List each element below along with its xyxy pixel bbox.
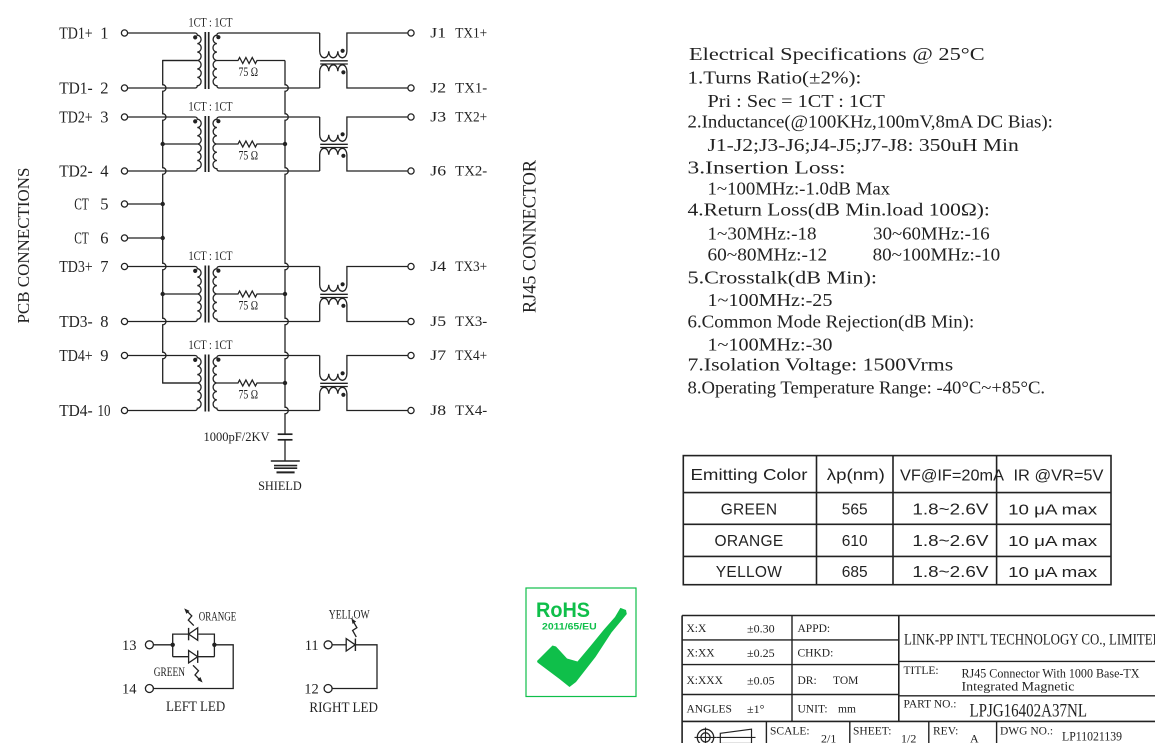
terminal J5 xyxy=(408,318,414,324)
svg-text:5.Crosstalk(dB Min):: 5.Crosstalk(dB Min): xyxy=(688,267,878,288)
wire LED pair to pin 14 xyxy=(153,645,233,689)
transformer T1 secondary winding xyxy=(213,33,320,88)
svg-text:60~80MHz:-12: 60~80MHz:-12 xyxy=(708,245,828,265)
svg-text:J1-J2;J3-J6;J4-J5;J7-J8: 350uH: J1-J2;J3-J6;J4-J5;J7-J8: 350uH Min xyxy=(708,135,1019,155)
svg-text:TX2-: TX2- xyxy=(455,163,487,179)
svg-text:6: 6 xyxy=(100,228,108,247)
svg-text:9: 9 xyxy=(100,346,108,365)
svg-text:6.Common Mode Rejection(dB Min: 6.Common Mode Rejection(dB Min): xyxy=(688,311,975,332)
svg-text:LEFT LED: LEFT LED xyxy=(166,699,225,715)
svg-text:10: 10 xyxy=(98,401,111,420)
junction dot T4 resistor xyxy=(283,381,287,385)
svg-text:4.Return Loss(dB Min.load 100Ω: 4.Return Loss(dB Min.load 100Ω): xyxy=(688,200,990,221)
svg-text:TX3+: TX3+ xyxy=(455,259,487,275)
svg-text:SHIELD: SHIELD xyxy=(258,479,302,493)
LED pair loop wires xyxy=(173,634,215,657)
svg-text:TX4-: TX4- xyxy=(455,403,487,419)
common-mode choke of T2 upper winding xyxy=(320,117,408,141)
terminal J1 xyxy=(408,30,414,36)
title block grid xyxy=(682,615,1155,617)
terminal pin 11 xyxy=(324,641,332,649)
resistor 75ohm of T1 xyxy=(217,58,285,64)
svg-text:TD4+: TD4+ xyxy=(59,346,93,365)
svg-text:TX3-: TX3- xyxy=(455,314,487,330)
common-mode choke of T1 upper winding xyxy=(320,33,408,58)
svg-text:2/1: 2/1 xyxy=(821,732,836,743)
svg-text:TOM: TOM xyxy=(833,675,858,687)
svg-text:LPJG16402A37NL: LPJG16402A37NL xyxy=(970,702,1088,722)
terminal pin 1 (TD1+) xyxy=(121,30,127,36)
transformer T2 primary winding xyxy=(128,117,202,171)
svg-text:RoHS: RoHS xyxy=(536,598,590,622)
common-mode choke of T4 lower winding xyxy=(320,387,408,410)
svg-text:1~30MHz:-18: 1~30MHz:-18 xyxy=(708,224,817,244)
svg-text:Pri : Sec = 1CT : 1CT: Pri : Sec = 1CT : 1CT xyxy=(708,91,885,111)
svg-text:3.Insertion Loss:: 3.Insertion Loss: xyxy=(688,158,846,178)
transformer T3 polarity dots xyxy=(193,269,197,273)
svg-text:X:X: X:X xyxy=(687,623,708,635)
junction dot T2 center tap xyxy=(161,142,165,146)
svg-text:1~100MHz:-25: 1~100MHz:-25 xyxy=(708,290,833,310)
transformer T4 core xyxy=(204,355,206,412)
svg-text:10 μA max: 10 μA max xyxy=(1008,533,1098,550)
svg-text:CT: CT xyxy=(74,194,89,213)
transformer T3 primary center-tap wire xyxy=(163,293,198,295)
svg-text:1/2: 1/2 xyxy=(901,732,916,743)
svg-text:685: 685 xyxy=(842,564,868,581)
wire from pin 6 xyxy=(128,237,163,239)
svg-text:TD3+: TD3+ xyxy=(59,257,93,276)
terminal J3 xyxy=(408,114,414,120)
junction dot CT6 xyxy=(161,236,165,240)
wire capacitor to ground xyxy=(284,440,286,461)
svg-text:TD3-: TD3- xyxy=(59,312,93,331)
terminal pin 13 xyxy=(145,641,153,649)
terminal pin 9 (TD4+) xyxy=(121,352,127,358)
svg-text:TD1-: TD1- xyxy=(59,78,93,97)
transformer T3 secondary winding xyxy=(213,267,320,322)
svg-text:1CT : 1CT: 1CT : 1CT xyxy=(189,338,233,352)
svg-text:1: 1 xyxy=(100,23,108,42)
terminal pin 4 (TD2-) xyxy=(121,168,127,174)
svg-text:X:XX: X:XX xyxy=(687,648,716,660)
terminal pin 12 xyxy=(324,685,332,693)
svg-text:A: A xyxy=(970,732,979,743)
transformer T1 primary center-tap wire xyxy=(163,60,198,62)
transformer T3 core xyxy=(204,266,206,323)
resistor 75ohm of T3 xyxy=(217,291,285,297)
terminal J2 xyxy=(408,85,414,91)
svg-text:1.8~2.6V: 1.8~2.6V xyxy=(912,564,989,581)
LED D1 ORANGE (points left) xyxy=(189,628,198,640)
common-mode choke of T4 polarity dots xyxy=(341,371,345,375)
svg-text:4: 4 xyxy=(100,161,108,180)
transformer T1 polarity dots xyxy=(193,35,197,39)
common-mode choke of T3 upper winding xyxy=(320,267,408,292)
transformer T4 primary winding xyxy=(128,356,202,411)
svg-text:X:XXX: X:XXX xyxy=(687,675,724,687)
transformer T1 core xyxy=(204,32,206,89)
terminal pin 8 (TD3-) xyxy=(121,318,127,324)
svg-text:TX1+: TX1+ xyxy=(455,25,487,41)
resistor 75ohm of T2 xyxy=(217,141,285,147)
svg-text:J3: J3 xyxy=(430,109,446,125)
svg-text:RIGHT LED: RIGHT LED xyxy=(309,700,378,716)
svg-text:APPD:: APPD: xyxy=(798,623,831,635)
svg-text:VF@IF=20mA: VF@IF=20mA xyxy=(900,468,1005,485)
svg-text:J7: J7 xyxy=(430,348,446,364)
svg-text:λp(nm): λp(nm) xyxy=(827,467,885,484)
common-mode choke of T2 lower winding xyxy=(320,148,408,171)
RoHS logo checkmark xyxy=(537,608,627,687)
svg-text:TD1+: TD1+ xyxy=(59,23,93,42)
terminal pin 10 (TD4-) xyxy=(121,407,127,413)
svg-text:TITLE:: TITLE: xyxy=(904,665,939,677)
svg-text:7: 7 xyxy=(100,257,108,276)
projection symbol xyxy=(697,729,713,743)
svg-text:ORANGE: ORANGE xyxy=(715,533,784,550)
terminal pin 5 (CT) xyxy=(121,201,127,207)
svg-text:SHEET:: SHEET: xyxy=(853,726,891,738)
svg-text:J6: J6 xyxy=(430,163,446,179)
common-mode choke of T3 core xyxy=(320,293,348,295)
svg-text:1CT : 1CT: 1CT : 1CT xyxy=(189,16,233,30)
svg-text:Integrated Magnetic: Integrated Magnetic xyxy=(962,680,1075,694)
svg-text:GREEN: GREEN xyxy=(721,502,778,519)
svg-text:CT: CT xyxy=(74,228,89,247)
transformer T4 secondary winding xyxy=(213,356,320,411)
terminal J7 xyxy=(408,352,414,358)
svg-text:5: 5 xyxy=(100,194,108,213)
svg-text:mm: mm xyxy=(838,703,856,715)
transformer T1 primary winding xyxy=(128,33,202,88)
resistor 75ohm of T4 xyxy=(217,380,285,386)
svg-text:TD2-: TD2- xyxy=(59,161,93,180)
svg-text:Emitting Color: Emitting Color xyxy=(691,467,808,484)
svg-text:YELLOW: YELLOW xyxy=(329,608,371,622)
svg-text:1000pF/2KV: 1000pF/2KV xyxy=(204,430,270,444)
svg-text:DR:: DR: xyxy=(798,675,817,687)
LED D3 YELLOW (points right) xyxy=(346,639,355,651)
transformer T3 primary winding xyxy=(128,267,202,322)
svg-text:ANGLES: ANGLES xyxy=(687,703,732,715)
svg-text:2: 2 xyxy=(100,78,108,97)
svg-text:DWG NO.:: DWG NO.: xyxy=(1000,726,1053,738)
svg-text:LINK-PP INT'L TECHNOLOGY CO.,: LINK-PP INT'L TECHNOLOGY CO., LIMITED xyxy=(904,632,1155,649)
terminal pin 6 (CT) xyxy=(121,235,127,241)
svg-text:8.Operating Temperature Range:: 8.Operating Temperature Range: -40°C~+85… xyxy=(688,378,1046,398)
transformer T4 primary center-tap wire xyxy=(163,382,198,384)
svg-text:±0.30: ±0.30 xyxy=(747,622,775,636)
terminal J8 xyxy=(408,407,414,413)
svg-text:1.Turns Ratio(±2%):: 1.Turns Ratio(±2%): xyxy=(688,67,862,88)
common-mode choke of T1 lower winding xyxy=(320,65,408,88)
LED D1 emission arrow xyxy=(187,611,194,625)
terminal pin 14 xyxy=(145,685,153,693)
LED characteristics table grid xyxy=(683,456,1111,585)
svg-text:CHKD:: CHKD: xyxy=(798,648,834,660)
svg-text:1~100MHz:-1.0dB Max: 1~100MHz:-1.0dB Max xyxy=(708,179,891,199)
svg-text:±0.25: ±0.25 xyxy=(747,646,775,660)
svg-text:REV:: REV: xyxy=(933,726,958,738)
svg-text:PART NO.:: PART NO.: xyxy=(904,699,957,711)
wire pin 11 to LED D3 xyxy=(332,644,346,646)
transformer T2 primary center-tap wire xyxy=(163,143,198,145)
svg-text:LP11021139: LP11021139 xyxy=(1062,730,1122,743)
svg-text:SCALE:: SCALE: xyxy=(770,726,810,738)
transformer T4 polarity dots xyxy=(193,358,197,362)
common-mode choke of T3 polarity dots xyxy=(341,282,345,286)
terminal pin 3 (TD2+) xyxy=(121,114,127,120)
svg-text:75 Ω: 75 Ω xyxy=(239,387,259,402)
common-mode choke of T1 core xyxy=(320,60,348,62)
svg-text:RJ45 CONNECTOR: RJ45 CONNECTOR xyxy=(520,160,541,313)
svg-text:2.Inductance(@100KHz,100mV,8mA: 2.Inductance(@100KHz,100mV,8mA DC Bias): xyxy=(688,111,1053,132)
capacitor C1 1000pF/2KV plates xyxy=(278,433,293,435)
svg-text:7.Isolation Voltage: 1500Vrms: 7.Isolation Voltage: 1500Vrms xyxy=(688,355,954,375)
svg-text:YELLOW: YELLOW xyxy=(716,564,782,581)
terminal J4 xyxy=(408,263,414,269)
svg-text:3: 3 xyxy=(100,107,108,126)
svg-text:PCB CONNECTIONS: PCB CONNECTIONS xyxy=(14,168,33,324)
svg-text:80~100MHz:-10: 80~100MHz:-10 xyxy=(873,245,1001,265)
svg-text:J2: J2 xyxy=(430,80,446,96)
svg-text:UNIT:: UNIT: xyxy=(798,703,828,715)
LED D2 emission arrow xyxy=(193,665,200,679)
terminal J6 xyxy=(408,168,414,174)
svg-text:75 Ω: 75 Ω xyxy=(239,64,259,79)
svg-text:1~100MHz:-30: 1~100MHz:-30 xyxy=(708,334,833,354)
svg-text:12: 12 xyxy=(304,682,319,698)
LED D2 GREEN (points right) xyxy=(189,651,198,663)
svg-text:610: 610 xyxy=(842,533,868,550)
common-mode choke of T1 polarity dots xyxy=(341,49,345,53)
svg-text:±0.05: ±0.05 xyxy=(747,674,775,688)
svg-text:ORANGE: ORANGE xyxy=(199,609,237,623)
junction dot T2 resistor xyxy=(283,142,287,146)
svg-text:IR @VR=5V: IR @VR=5V xyxy=(1014,468,1105,485)
svg-text:1CT : 1CT: 1CT : 1CT xyxy=(189,100,233,114)
svg-text:10 μA max: 10 μA max xyxy=(1008,502,1098,519)
svg-text:14: 14 xyxy=(122,682,137,698)
junction dot CT5 xyxy=(161,202,165,206)
transformer T2 polarity dots xyxy=(193,119,197,123)
common-mode choke of T4 core xyxy=(320,382,348,384)
svg-text:8: 8 xyxy=(100,312,108,331)
junction dot left of LED pair xyxy=(171,643,175,647)
left center-tap bus wire xyxy=(163,61,198,384)
svg-text:565: 565 xyxy=(842,502,868,519)
junction dot T3 center tap xyxy=(161,292,165,296)
right termination bus wire xyxy=(285,61,288,435)
LED D3 emission arrow xyxy=(353,622,357,637)
svg-text:2011/65/EU: 2011/65/EU xyxy=(542,622,597,633)
svg-text:TX4+: TX4+ xyxy=(455,348,487,364)
wire from pin 5 xyxy=(128,203,163,205)
svg-text:75 Ω: 75 Ω xyxy=(239,298,259,313)
svg-text:Electrical Specifications @ 25: Electrical Specifications @ 25°C xyxy=(689,44,985,64)
svg-text:J8: J8 xyxy=(430,403,446,419)
svg-text:30~60MHz:-16: 30~60MHz:-16 xyxy=(873,224,990,244)
svg-text:GREEN: GREEN xyxy=(154,665,185,679)
svg-text:TX1-: TX1- xyxy=(455,80,487,96)
svg-text:10 μA max: 10 μA max xyxy=(1008,564,1098,581)
svg-text:1.8~2.6V: 1.8~2.6V xyxy=(912,533,989,550)
transformer T2 secondary winding xyxy=(213,117,320,171)
common-mode choke of T4 upper winding xyxy=(320,356,408,381)
svg-text:13: 13 xyxy=(122,638,137,654)
common-mode choke of T2 polarity dots xyxy=(341,132,345,136)
svg-text:11: 11 xyxy=(305,638,319,654)
svg-text:TD4-: TD4- xyxy=(59,401,93,420)
junction dot right of LED pair xyxy=(212,643,216,647)
transformer T2 core xyxy=(204,116,206,172)
svg-text:TD2+: TD2+ xyxy=(59,107,93,126)
svg-text:J1: J1 xyxy=(430,25,446,41)
common-mode choke of T3 lower winding xyxy=(320,298,408,321)
svg-text:TX2+: TX2+ xyxy=(455,109,487,125)
svg-text:±1°: ±1° xyxy=(747,702,765,716)
terminal pin 7 (TD3+) xyxy=(121,263,127,269)
common-mode choke of T2 core xyxy=(320,143,348,145)
svg-text:J5: J5 xyxy=(430,314,446,330)
wire LED D3 to pin 12 xyxy=(332,645,377,689)
RoHS logo box xyxy=(526,588,636,697)
svg-text:RJ45 Connector With 1000 Base-: RJ45 Connector With 1000 Base-TX xyxy=(962,667,1140,681)
junction dot T3 resistor xyxy=(283,292,287,296)
wire pin 13 to LED pair xyxy=(153,644,172,646)
ground SHIELD symbol xyxy=(271,460,300,462)
terminal pin 2 (TD1-) xyxy=(121,85,127,91)
svg-text:75 Ω: 75 Ω xyxy=(239,148,259,163)
svg-text:1.8~2.6V: 1.8~2.6V xyxy=(912,502,989,519)
svg-text:J4: J4 xyxy=(430,259,447,275)
svg-text:1CT : 1CT: 1CT : 1CT xyxy=(189,249,233,263)
